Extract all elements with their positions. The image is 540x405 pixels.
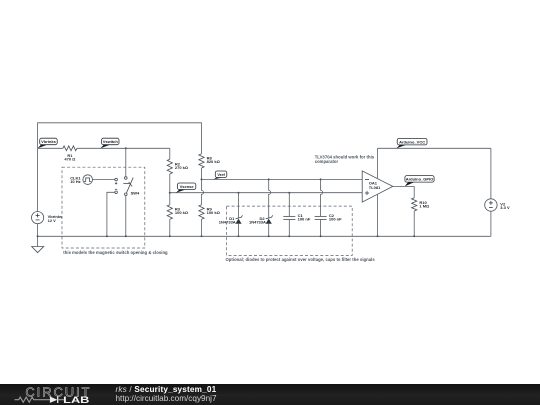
svg-text:SW4: SW4 bbox=[131, 191, 140, 196]
logo wire to LAB bbox=[58, 399, 65, 401]
wire Vref column hop over Vsense bbox=[202, 179, 204, 204]
node flag Arduino_VCC bbox=[396, 138, 427, 148]
wire C2 column hop over Vsense bbox=[321, 179, 323, 216]
svg-text:Vsense: Vsense bbox=[180, 184, 195, 189]
capacitor C1 bbox=[283, 193, 311, 237]
diode D2 bbox=[249, 215, 273, 236]
svg-text:Vswitch: Vswitch bbox=[103, 139, 119, 144]
op-amp OA1 bbox=[362, 171, 393, 202]
node C2 tap on Vref bbox=[320, 178, 322, 180]
wire switch column top bbox=[125, 148, 127, 176]
svg-text:LAB: LAB bbox=[63, 395, 90, 405]
wire Vref net to op-amp bbox=[202, 178, 363, 180]
node D2 tap on Vref bbox=[268, 178, 270, 180]
svg-text:this models the magnetic switc: this models the magnetic switch opening … bbox=[63, 250, 168, 255]
svg-text:100 nF: 100 nF bbox=[329, 217, 342, 222]
node flag Vref bbox=[213, 171, 226, 179]
wire ground rail bbox=[38, 235, 491, 237]
diode D1 bbox=[219, 193, 243, 237]
logo wire to diode bbox=[38, 399, 50, 401]
svg-text:Vbrinks: Vbrinks bbox=[41, 139, 56, 144]
logo diode glyph bbox=[50, 397, 58, 403]
svg-text:Arduino_VCC: Arduino_VCC bbox=[399, 139, 425, 144]
svg-text:100 nF: 100 nF bbox=[298, 217, 311, 222]
logo resistor glyph bbox=[15, 397, 38, 402]
wire op-amp V+ bbox=[377, 148, 379, 178]
svg-text:1 MΩ: 1 MΩ bbox=[419, 204, 430, 209]
svg-text:TL081: TL081 bbox=[369, 185, 381, 190]
annotation box optional parts bbox=[227, 206, 353, 255]
wire main node Vbrinks to R1 bbox=[38, 147, 63, 149]
wire R2 to Vsense bbox=[169, 174, 171, 193]
annotation text comparator bbox=[315, 154, 375, 164]
svg-text:http://circuitlab.com/cqy9nj7: http://circuitlab.com/cqy9nj7 bbox=[116, 394, 217, 403]
node Vref junction bbox=[201, 178, 203, 180]
voltage source CLK1 bbox=[70, 175, 92, 185]
node junction switch top bbox=[125, 147, 127, 149]
resistor R2 bbox=[167, 148, 189, 174]
ground bbox=[32, 236, 44, 252]
wire R8 to Vref node bbox=[201, 168, 203, 179]
svg-text:100 kΩ: 100 kΩ bbox=[207, 210, 221, 215]
svg-text:270 kΩ: 270 kΩ bbox=[175, 165, 189, 170]
switch control plus terminal bbox=[115, 178, 118, 184]
svg-text:rks / Security_system_01: rks / Security_system_01 bbox=[116, 385, 217, 394]
svg-text:820 kΩ: 820 kΩ bbox=[207, 159, 221, 164]
svg-text:Vref: Vref bbox=[217, 172, 225, 177]
node Vsense junction bbox=[169, 192, 171, 194]
resistor R10 bbox=[412, 186, 430, 236]
node flag Arduino_GPIO bbox=[405, 176, 434, 187]
node C1 tap bbox=[288, 192, 290, 194]
svg-text:10 Hz: 10 Hz bbox=[70, 179, 80, 184]
svg-text:Arduino_GPIO: Arduino_GPIO bbox=[406, 177, 434, 182]
wire op-amp V- bbox=[377, 195, 379, 237]
resistor R9 bbox=[199, 205, 221, 237]
voltage source V2 bbox=[485, 148, 510, 236]
wire Vswitch net R1 to R2 bbox=[77, 147, 170, 149]
annotation box switch model bbox=[62, 167, 145, 248]
wire op-amp output bbox=[393, 185, 414, 187]
svg-text:comparator: comparator bbox=[315, 159, 339, 164]
resistor R8 bbox=[199, 154, 221, 168]
wire CLK1 to switch control plus bbox=[93, 179, 115, 181]
resistor R1 bbox=[63, 146, 77, 162]
node flag Vsense bbox=[176, 183, 196, 193]
node D1 tap bbox=[238, 192, 240, 194]
node flag Vswitch bbox=[100, 138, 119, 148]
svg-text:12 V: 12 V bbox=[48, 218, 57, 223]
switch SW4 bbox=[123, 177, 140, 196]
switch control minus terminal bbox=[115, 189, 118, 193]
svg-text:100 kΩ: 100 kΩ bbox=[175, 210, 189, 215]
ground rail junction dots bbox=[37, 235, 416, 237]
wire switch column bottom bbox=[125, 196, 127, 237]
svg-text:1N4733A: 1N4733A bbox=[219, 220, 236, 225]
wire Arduino VCC rail bbox=[378, 147, 491, 149]
svg-text:Optional; diodes to protect ag: Optional; diodes to protect against over… bbox=[226, 257, 376, 262]
wire D2 column hop over Vsense bbox=[269, 179, 271, 217]
svg-text:470 Ω: 470 Ω bbox=[64, 157, 76, 162]
voltage source V1 bbox=[31, 148, 63, 236]
wire control minus return bbox=[107, 192, 115, 236]
svg-text:1N4733A: 1N4733A bbox=[249, 220, 266, 225]
wire top loop Vbrinks to R8 bbox=[38, 123, 202, 154]
resistor R3 bbox=[167, 193, 189, 237]
capacitor C2 bbox=[315, 213, 343, 236]
svg-text:3.3 V: 3.3 V bbox=[500, 205, 510, 210]
wire Vsense net to op-amp bbox=[170, 192, 362, 194]
node flag Vbrinks bbox=[38, 138, 58, 148]
